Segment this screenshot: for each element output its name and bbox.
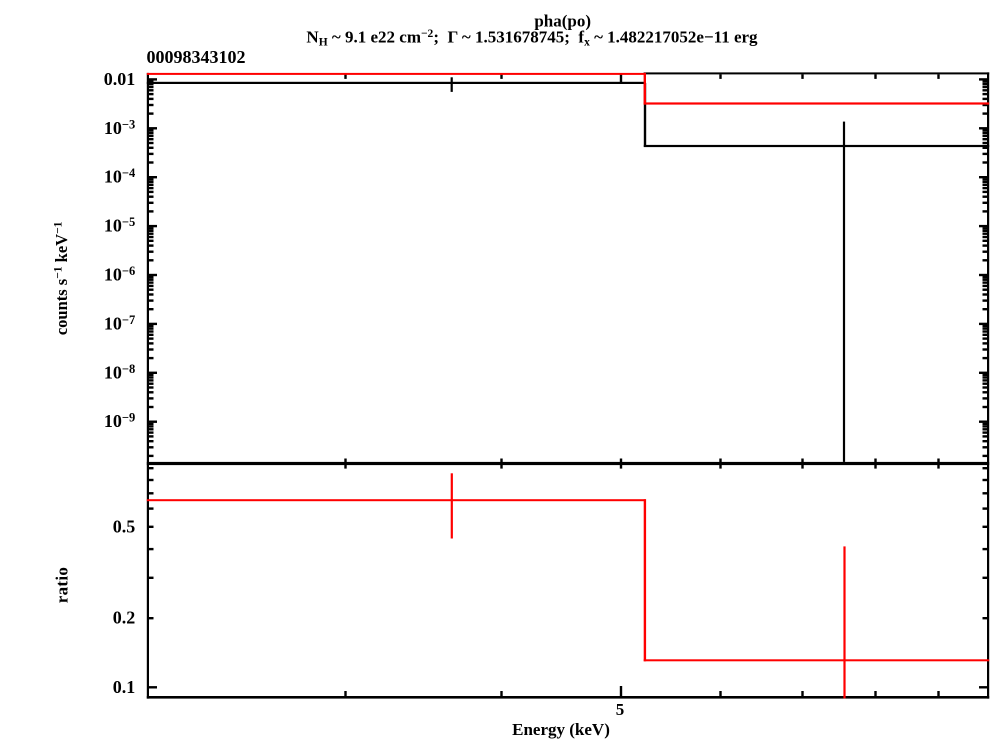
y major tick 1e-5 right <box>979 225 987 227</box>
ratio tick 0.6 right <box>983 507 988 509</box>
y minor tick left <box>149 325 154 327</box>
y minor tick right <box>983 153 988 155</box>
data (black) error bar bin 1 <box>451 77 453 92</box>
y minor tick left <box>149 386 154 388</box>
y minor tick left <box>149 455 154 457</box>
y major tick 1e-9 left <box>149 421 157 423</box>
x tick 345.5 bottom frame <box>344 691 346 696</box>
y minor tick right <box>983 279 988 281</box>
y major tick 1e-5 left <box>149 225 157 227</box>
y minor tick right <box>983 440 988 442</box>
y minor tick left <box>149 153 154 155</box>
y minor tick left <box>149 293 154 295</box>
y minor tick left <box>149 191 154 193</box>
svg-text:0.2: 0.2 <box>113 608 136 628</box>
x tick 875.5 divider <box>874 459 876 469</box>
x tick 802.5 divider <box>801 459 803 469</box>
x tick 720.5 top frame <box>719 74 721 79</box>
ratio tick 0.5 right <box>983 526 988 528</box>
y minor tick left <box>149 259 154 261</box>
y minor tick left <box>149 181 154 183</box>
y minor tick left <box>149 210 154 212</box>
ratio tick 0.2 right <box>983 617 988 619</box>
y minor tick right <box>983 112 988 114</box>
y minor tick right <box>983 233 988 235</box>
y minor tick left <box>149 112 154 114</box>
ratio tick 0.8 right <box>983 479 988 481</box>
y minor tick left <box>149 423 154 425</box>
y minor tick left <box>149 184 154 186</box>
y minor tick left <box>149 289 154 291</box>
y minor tick left <box>149 86 154 88</box>
y minor tick left <box>149 428 154 430</box>
x tick 938.5 divider <box>937 459 939 469</box>
ratio tick 0.5 left <box>149 526 154 528</box>
y minor tick left <box>149 376 154 378</box>
y minor tick right <box>983 376 988 378</box>
ratio major tick 0.1 right <box>979 686 987 688</box>
plot frame: top edge (upper panel, right of step) <box>644 72 990 74</box>
y major tick 1e-3 right <box>979 127 987 129</box>
ratio tick 0.4 right <box>983 548 988 550</box>
data (black) error bar bin 2 <box>843 122 845 462</box>
y minor tick left <box>149 132 154 134</box>
y minor tick left <box>149 142 154 144</box>
y minor tick right <box>983 397 988 399</box>
y minor tick left <box>149 348 154 350</box>
ratio (red) step down <box>644 499 646 661</box>
y minor tick left <box>149 104 154 106</box>
y minor tick right <box>983 161 988 163</box>
y minor tick left <box>149 327 154 329</box>
x tick 720.5 bottom frame <box>719 691 721 696</box>
x tick 345.5 divider <box>344 459 346 469</box>
y minor tick left <box>149 129 154 131</box>
y minor tick right <box>983 89 988 91</box>
y minor tick right <box>983 431 988 433</box>
y minor tick left <box>149 233 154 235</box>
y minor tick right <box>983 181 988 183</box>
plot frame: panel divider <box>147 462 989 465</box>
ratio tick 0.7 right <box>983 492 988 494</box>
x tick 938.5 top frame <box>937 74 939 79</box>
y minor tick right <box>983 435 988 437</box>
x tick 802.5 bottom frame <box>801 691 803 696</box>
x tick 621.0 top frame <box>620 74 622 82</box>
svg-text:0.5: 0.5 <box>113 516 136 536</box>
y minor tick left <box>149 431 154 433</box>
y minor tick right <box>983 325 988 327</box>
y minor tick right <box>983 251 988 253</box>
y minor tick left <box>149 391 154 393</box>
x tick 501.5 top frame <box>500 74 502 79</box>
x tick 875.5 top frame <box>874 74 876 79</box>
svg-text:ratio: ratio <box>53 567 72 603</box>
y minor tick left <box>149 357 154 359</box>
y minor tick right <box>983 129 988 131</box>
ratio (red) bin 1 level <box>147 499 646 501</box>
ratio tick 0.9 left <box>149 467 154 469</box>
y minor tick right <box>983 135 988 137</box>
y minor tick left <box>149 299 154 301</box>
y minor tick right <box>983 379 988 381</box>
y minor tick right <box>983 357 988 359</box>
y minor tick left <box>149 202 154 204</box>
y minor tick left <box>149 161 154 163</box>
y minor tick left <box>149 244 154 246</box>
y minor tick right <box>983 383 988 385</box>
y minor tick left <box>149 240 154 242</box>
y minor tick left <box>149 138 154 140</box>
y minor tick left <box>149 281 154 283</box>
y minor tick right <box>983 425 988 427</box>
ratio (red) bin 2 level <box>644 659 990 661</box>
y minor tick left <box>149 285 154 287</box>
y minor tick right <box>983 342 988 344</box>
x tick 802.5 top frame <box>801 74 803 79</box>
y minor tick left <box>149 80 154 82</box>
y major tick 1e-2 right <box>979 78 987 80</box>
model (red) bin 2 level <box>644 102 990 104</box>
y minor tick right <box>983 334 988 336</box>
y major tick 1e-7 right <box>979 323 987 325</box>
svg-text:NH ~ 9.1 e22 cm−2; Γ ~ 1.5316: NH ~ 9.1 e22 cm−2; Γ ~ 1.531678745; fx ~… <box>306 28 758 49</box>
y minor tick right <box>983 289 988 291</box>
y minor tick right <box>983 138 988 140</box>
ratio tick 0.3 left <box>149 577 154 579</box>
svg-text:5: 5 <box>616 700 625 719</box>
y minor tick right <box>983 227 988 229</box>
y minor tick left <box>149 89 154 91</box>
y major tick 1e-8 left <box>149 372 157 374</box>
y minor tick right <box>983 423 988 425</box>
y minor tick right <box>983 330 988 332</box>
y minor tick left <box>149 440 154 442</box>
data (black) bin 1 level <box>147 82 645 84</box>
ratio tick 0.6 left <box>149 507 154 509</box>
y minor tick left <box>149 337 154 339</box>
y minor tick left <box>149 98 154 100</box>
y minor tick right <box>983 178 988 180</box>
x tick 875.5 bottom frame <box>874 691 876 696</box>
x tick 501.5 bottom frame <box>500 691 502 696</box>
y minor tick left <box>149 374 154 376</box>
y minor tick right <box>983 98 988 100</box>
y minor tick left <box>149 187 154 189</box>
y minor tick right <box>983 147 988 149</box>
plot frame: right axis <box>987 72 989 698</box>
y major tick 1e-4 left <box>149 176 157 178</box>
y minor tick right <box>983 281 988 283</box>
y minor tick left <box>149 446 154 448</box>
plot frame: bottom edge (lower panel) <box>147 696 989 699</box>
y minor tick right <box>983 374 988 376</box>
x tick 938.5 bottom frame <box>937 691 939 696</box>
y minor tick right <box>983 240 988 242</box>
y minor tick left <box>149 334 154 336</box>
x tick 621.0 bottom frame <box>620 686 622 696</box>
y minor tick right <box>983 386 988 388</box>
ratio tick 0.7 left <box>149 492 154 494</box>
y minor tick left <box>149 230 154 232</box>
model (red) step down <box>644 73 646 105</box>
y minor tick right <box>983 327 988 329</box>
ratio tick 0.2 left <box>149 617 154 619</box>
y minor tick right <box>983 293 988 295</box>
y minor tick right <box>983 236 988 238</box>
y major tick 1e-8 right <box>979 372 987 374</box>
data (black) bin 2 level <box>644 145 989 147</box>
y minor tick right <box>983 348 988 350</box>
y major tick 1e-2 left <box>149 78 157 80</box>
ratio tick 0.4 left <box>149 548 154 550</box>
y minor tick left <box>149 276 154 278</box>
y minor tick right <box>983 259 988 261</box>
y minor tick left <box>149 330 154 332</box>
ratio (red) error bar bin 1 <box>451 473 453 538</box>
y minor tick left <box>149 425 154 427</box>
y minor tick right <box>983 308 988 310</box>
y minor tick right <box>983 83 988 85</box>
ratio major tick 0.1 left <box>149 686 157 688</box>
y minor tick right <box>983 428 988 430</box>
y major tick 1e-9 right <box>979 421 987 423</box>
y minor tick left <box>149 342 154 344</box>
y minor tick right <box>983 132 988 134</box>
y minor tick right <box>983 406 988 408</box>
y minor tick left <box>149 196 154 198</box>
y minor tick right <box>983 86 988 88</box>
y minor tick left <box>149 251 154 253</box>
y minor tick right <box>983 455 988 457</box>
y minor tick right <box>983 104 988 106</box>
y minor tick right <box>983 80 988 82</box>
ratio (red) error bar bin 2 <box>843 546 845 698</box>
y minor tick left <box>149 135 154 137</box>
y minor tick right <box>983 230 988 232</box>
ratio tick 0.9 right <box>983 467 988 469</box>
ratio tick 0.3 right <box>983 577 988 579</box>
svg-text:0.01: 0.01 <box>104 69 136 89</box>
y minor tick left <box>149 435 154 437</box>
y minor tick right <box>983 93 988 95</box>
y minor tick left <box>149 83 154 85</box>
y minor tick left <box>149 279 154 281</box>
y minor tick left <box>149 227 154 229</box>
y minor tick right <box>983 391 988 393</box>
y minor tick left <box>149 147 154 149</box>
data (black) step down at ~5.2 keV <box>644 83 646 147</box>
y minor tick left <box>149 236 154 238</box>
y minor tick right <box>983 196 988 198</box>
y minor tick left <box>149 383 154 385</box>
y minor tick right <box>983 142 988 144</box>
y minor tick left <box>149 178 154 180</box>
x tick 621.0 divider <box>620 459 622 469</box>
y minor tick left <box>149 308 154 310</box>
y minor tick right <box>983 244 988 246</box>
y minor tick right <box>983 337 988 339</box>
y major tick 1e-4 right <box>979 176 987 178</box>
x tick 720.5 divider <box>719 459 721 469</box>
y minor tick right <box>983 191 988 193</box>
model (red) bin 1 level <box>147 73 646 75</box>
y minor tick left <box>149 379 154 381</box>
ratio tick 0.8 left <box>149 479 154 481</box>
y minor tick right <box>983 299 988 301</box>
x tick 501.5 divider <box>500 459 502 469</box>
svg-text:0.1: 0.1 <box>113 677 136 697</box>
y major tick 1e-3 left <box>149 127 157 129</box>
y minor tick right <box>983 202 988 204</box>
svg-text:00098343102: 00098343102 <box>147 47 246 67</box>
y minor tick right <box>983 187 988 189</box>
y major tick 1e-6 right <box>979 274 987 276</box>
y minor tick right <box>983 210 988 212</box>
y minor tick right <box>983 446 988 448</box>
y minor tick left <box>149 93 154 95</box>
svg-text:Energy (keV): Energy (keV) <box>512 720 610 739</box>
y major tick 1e-6 left <box>149 274 157 276</box>
y minor tick right <box>983 285 988 287</box>
y minor tick right <box>983 276 988 278</box>
y minor tick right <box>983 184 988 186</box>
x tick 345.5 top frame <box>344 74 346 79</box>
y minor tick left <box>149 397 154 399</box>
y major tick 1e-7 left <box>149 323 157 325</box>
y minor tick left <box>149 406 154 408</box>
plot frame: left axis <box>147 73 149 699</box>
